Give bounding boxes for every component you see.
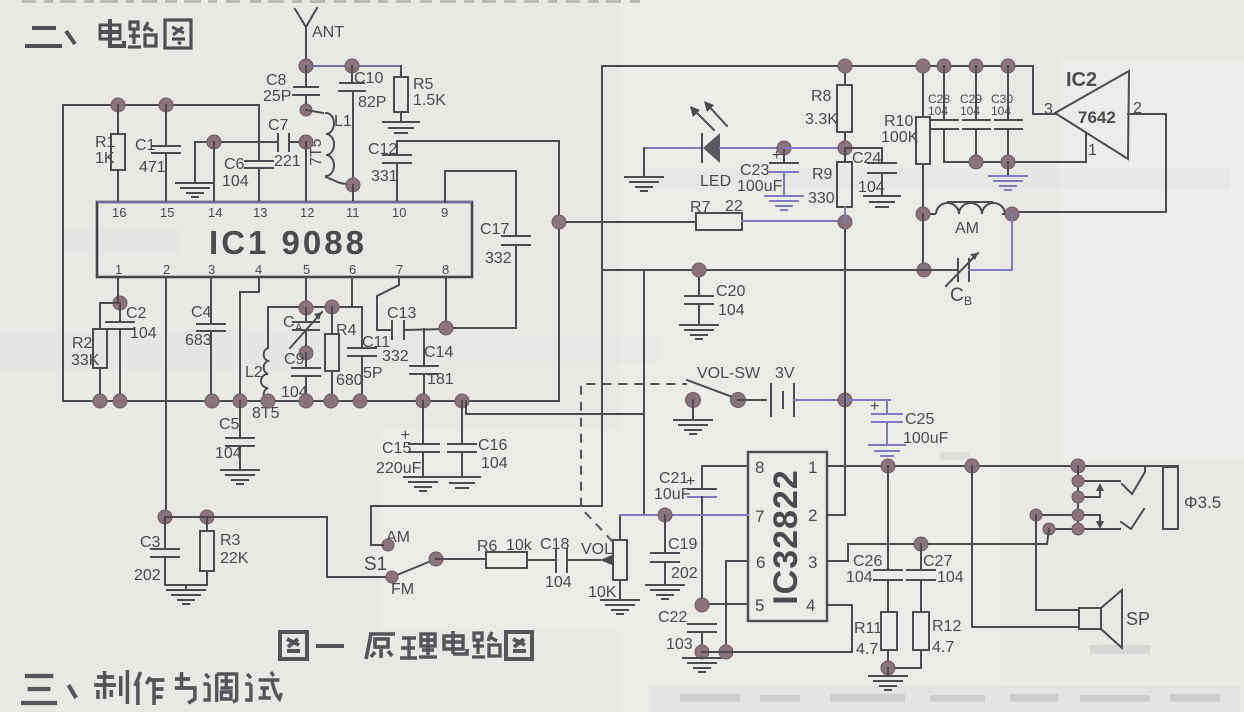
potentiometer VOL 10K: [567, 515, 639, 614]
wire pin5: [305, 277, 307, 308]
node jack row A: [1072, 475, 1084, 487]
node CB left junction: [917, 263, 931, 277]
node pin1 junction: [113, 296, 127, 310]
svg-text:C22: C22: [658, 609, 687, 626]
svg-text:7: 7: [396, 262, 403, 277]
svg-text:332: 332: [485, 250, 512, 267]
char 图: [506, 632, 532, 659]
node pin14 junction: [207, 135, 221, 149]
cut-off text row at very top: [22, 0, 640, 3]
svg-text:683: 683: [185, 332, 212, 349]
node R1 top: [111, 98, 125, 112]
wire ground row to pin4: [702, 605, 852, 652]
wire pin2 down to S1 row: [165, 277, 167, 517]
node jack row C: [1072, 509, 1084, 521]
svg-text:C: C: [283, 314, 295, 331]
svg-text:S1: S1: [364, 554, 387, 575]
svg-text:R8: R8: [811, 88, 832, 105]
capacitor C28 104: [928, 66, 958, 162]
inductor L1 7T5: [306, 110, 353, 185]
svg-text:10uF: 10uF: [654, 486, 691, 503]
svg-text:103: 103: [666, 636, 693, 653]
svg-text:R11: R11: [854, 620, 882, 637]
svg-text:1: 1: [808, 458, 817, 477]
wire x=602 to x=644 at y=270: [602, 269, 644, 271]
svg-text:100uF: 100uF: [737, 178, 783, 195]
svg-text:R5: R5: [413, 76, 434, 93]
IC32822 pin numbers: [755, 458, 817, 615]
node rail C14-C15: [416, 394, 430, 408]
char 、: [69, 685, 77, 698]
svg-text:R2: R2: [72, 335, 93, 352]
node top rail R10: [916, 59, 930, 73]
svg-text:R7: R7: [690, 199, 711, 216]
svg-text:104: 104: [991, 104, 1011, 118]
char 理: [400, 634, 437, 658]
wire R10 bottom to CB row: [922, 214, 924, 270]
wire pin8: [445, 277, 447, 328]
svg-text:202: 202: [134, 567, 161, 584]
svg-text:+: +: [772, 147, 781, 164]
capacitor C4: [185, 277, 225, 401]
node rail L2: [261, 394, 275, 408]
svg-text:220uF: 220uF: [376, 460, 422, 477]
svg-text:8: 8: [442, 262, 449, 277]
wire bypass bottom rail y=162: [944, 161, 1085, 163]
svg-text:C17: C17: [480, 221, 509, 238]
svg-text:104: 104: [937, 569, 964, 586]
svg-text:1K: 1K: [95, 150, 115, 167]
capacitor C5: [215, 401, 259, 484]
wire R9-battery-pin2 vertical: [844, 222, 846, 515]
wire pin4: [240, 277, 259, 401]
variable capacitor CB: [946, 214, 1012, 308]
node pin12 junction: [299, 135, 313, 149]
svg-text:9: 9: [441, 205, 448, 220]
svg-text:A: A: [295, 322, 303, 334]
svg-text:R4: R4: [336, 322, 357, 339]
char 试: [245, 672, 281, 700]
speaker SP: [972, 466, 1150, 648]
node rail R2: [93, 394, 107, 408]
char 路: [128, 22, 156, 47]
svg-text:R10: R10: [884, 113, 913, 130]
wire y=307 row pins5-6: [268, 306, 362, 308]
node AM coil left: [916, 207, 930, 221]
svg-text:C14: C14: [424, 344, 453, 361]
IC1 bottom pin numbers: [115, 262, 449, 277]
wire R7 to R9 node: [742, 220, 845, 222]
svg-text:4: 4: [806, 596, 815, 615]
svg-text:221: 221: [274, 153, 301, 170]
char 、: [66, 31, 75, 44]
wire x=644 down to pin7 row: [643, 414, 645, 515]
capacitor C17: [480, 221, 530, 328]
svg-text:C5: C5: [219, 416, 240, 433]
svg-text:C26: C26: [853, 553, 882, 570]
capacitor C22 103: [658, 609, 716, 657]
svg-text:1: 1: [1088, 142, 1097, 159]
capacitor C15 220uF: [376, 401, 442, 491]
svg-text:16: 16: [112, 205, 126, 220]
node C8-L1 junction: [300, 104, 312, 116]
wire pin11: [352, 185, 354, 202]
svg-text:13: 13: [253, 205, 267, 220]
capacitor C23 100uF: [737, 147, 803, 210]
node C26 top on pin1 row: [881, 459, 895, 473]
capacitor C19 202: [646, 515, 698, 599]
svg-text:IC1 9088: IC1 9088: [209, 224, 367, 261]
node pin5 junction: [299, 301, 313, 315]
svg-text:3: 3: [808, 553, 817, 572]
node rail C11: [353, 394, 367, 408]
svg-text:3.3K: 3.3K: [805, 111, 838, 128]
svg-text:100uF: 100uF: [903, 430, 949, 447]
node S1 AM contact: [382, 539, 394, 551]
node R7-R9 junction: [838, 215, 852, 229]
char 调: [203, 674, 236, 702]
capacitor C24 104: [845, 148, 900, 207]
capacitor C29 104: [960, 66, 990, 162]
capacitor C8: [263, 66, 319, 110]
svg-text:IC2: IC2: [1066, 69, 1097, 91]
wire y=270 row: [602, 269, 958, 271]
jack springs: [1121, 467, 1145, 529]
svg-text:7642: 7642: [1078, 108, 1116, 127]
svg-text:10: 10: [392, 205, 406, 220]
caption 图一 原理电路图: [280, 631, 532, 659]
capacitor C30 104: [991, 66, 1022, 162]
node rail C4: [205, 394, 219, 408]
node rail R4: [324, 394, 338, 408]
node S1 common: [429, 552, 443, 566]
char 图: [165, 20, 191, 48]
svg-text:Φ3.5: Φ3.5: [1184, 493, 1221, 512]
resistor R4 680: [325, 307, 363, 401]
ground at LED: [625, 148, 663, 191]
node jack row B: [1072, 491, 1084, 503]
wire AM contact to x=602: [371, 506, 602, 545]
mechanical dashed link VOL to VOL-SW: [581, 384, 687, 542]
capacitor C18 104: [540, 536, 572, 591]
svg-text:7: 7: [755, 507, 764, 526]
svg-text:L1: L1: [334, 113, 352, 130]
node rail C16: [455, 394, 469, 408]
wire pin6 to ground row: [726, 561, 748, 652]
resistor R9 330: [808, 148, 852, 222]
ground at R11: [869, 668, 907, 690]
capacitor C2: [106, 303, 157, 401]
node S1 feed: [158, 510, 172, 524]
svg-text:C23: C23: [740, 162, 769, 179]
wire S1 common to R6: [436, 558, 486, 560]
capacitor C25 100uF: [869, 398, 949, 456]
node jack feed C: [1030, 509, 1042, 521]
node R3 top: [200, 510, 214, 524]
wire ground link y=414 to x=644: [466, 270, 644, 414]
wire battery node to C25: [845, 399, 890, 401]
node LED-C23 junction: [777, 141, 791, 155]
capacitor C14 181: [410, 329, 454, 401]
svg-text:C3: C3: [140, 534, 161, 551]
capacitor C6: [222, 142, 273, 202]
svg-text:B: B: [964, 294, 972, 308]
svg-text:+: +: [870, 398, 879, 415]
wire left top rail y=105: [63, 105, 259, 142]
svg-text:104: 104: [222, 173, 249, 190]
antenna ANT: [295, 8, 317, 66]
svg-text:SP: SP: [1126, 609, 1150, 629]
capacitor C20 104: [680, 270, 745, 339]
svg-text:12: 12: [300, 205, 314, 220]
resistor R12 4.7: [888, 612, 961, 668]
svg-text:202: 202: [671, 565, 698, 582]
svg-text:C2: C2: [126, 305, 147, 322]
wire bottom rail y=401: [63, 400, 559, 402]
node jack row D: [1072, 523, 1084, 535]
switch S1: [364, 529, 436, 598]
svg-text:C21: C21: [659, 470, 688, 487]
svg-text:C15: C15: [382, 440, 411, 457]
svg-text:1.5K: 1.5K: [413, 92, 446, 109]
svg-text:5: 5: [755, 596, 764, 615]
wire pin14: [213, 142, 215, 202]
wire pin12 vertical: [305, 142, 307, 202]
svg-text:ANT: ANT: [312, 24, 344, 41]
inductor L2 8T5: [245, 307, 280, 422]
svg-text:15: 15: [160, 205, 174, 220]
capacitor C7: [268, 117, 306, 170]
wire left vertical x=63: [62, 105, 64, 401]
svg-text:R1: R1: [95, 134, 116, 151]
capacitor C3 202: [134, 517, 179, 585]
svg-text:5P: 5P: [363, 365, 383, 382]
node pin6 ground junction: [719, 645, 733, 659]
svg-text:33K: 33K: [71, 352, 100, 369]
svg-text:R6: R6: [477, 538, 498, 555]
wire pin6: [351, 277, 353, 307]
svg-text:104: 104: [718, 302, 745, 319]
svg-text:104: 104: [215, 445, 242, 462]
svg-text:3: 3: [208, 262, 215, 277]
char 电: [444, 631, 467, 654]
svg-text:VOL: VOL: [581, 541, 613, 558]
node AM coil right: [1005, 207, 1019, 221]
ground below C3-R3: [165, 585, 207, 604]
node S1 FM contact: [386, 571, 398, 583]
variable capacitor CA: [283, 308, 322, 353]
svg-text:C4: C4: [191, 304, 212, 321]
svg-text:VOL-SW: VOL-SW: [697, 365, 761, 382]
node CA bottom junction: [299, 346, 313, 360]
resistor R7 22: [690, 198, 743, 230]
svg-text:LED: LED: [700, 173, 731, 190]
node top rail R8: [838, 59, 852, 73]
wire pin7 row: [620, 514, 748, 516]
IC1 top pin numbers: [112, 205, 448, 220]
ground at VOL-SW: [674, 400, 712, 434]
wire pin1: [117, 277, 119, 303]
svg-text:C9: C9: [284, 351, 305, 368]
svg-text:104: 104: [928, 104, 948, 118]
capacitor C16 104: [444, 401, 508, 488]
svg-text:C13: C13: [387, 305, 416, 322]
svg-text:10k: 10k: [506, 537, 533, 554]
node battery-R9 junction: [838, 393, 852, 407]
svg-text:6: 6: [756, 553, 765, 572]
svg-text:104: 104: [960, 104, 980, 118]
svg-text:C19: C19: [668, 536, 697, 553]
op-amp IC2 7642: [1044, 69, 1142, 159]
wire y=222 from x=559 to R7: [559, 221, 696, 223]
wire C17 bottom to pin8 node: [446, 327, 516, 329]
jack switch arrows: [1096, 483, 1104, 529]
svg-text:82P: 82P: [358, 94, 386, 111]
svg-text:330: 330: [808, 190, 835, 207]
node C21-C22-pin5 junction: [695, 598, 709, 612]
svg-text:22K: 22K: [220, 550, 249, 567]
wire y=517 row: [165, 517, 385, 577]
node jack column top: [1071, 459, 1085, 473]
svg-text:R12: R12: [932, 618, 961, 635]
svg-text:AM: AM: [955, 220, 979, 237]
jack body: [1163, 467, 1178, 529]
wire pin3 row up to jack D: [1047, 529, 1049, 544]
resistor R3 22K: [200, 517, 249, 585]
wire R6 to C18: [527, 559, 556, 561]
IC1 9088: [97, 202, 472, 277]
heading 三、制作与调试: [21, 670, 281, 705]
svg-text:4: 4: [255, 262, 262, 277]
svg-text:FM: FM: [391, 581, 414, 598]
svg-text:2: 2: [808, 506, 817, 525]
wire IC2 pin2 output: [1012, 114, 1166, 212]
wire x=602 vertical: [601, 66, 603, 506]
svg-text:C7: C7: [268, 117, 289, 134]
wire pin3 to C27 row: [827, 544, 1047, 561]
char 二: [25, 28, 62, 46]
inductor AM antenna coil: [923, 202, 1012, 237]
svg-text:331: 331: [371, 168, 398, 185]
wire pin9 to C17: [445, 171, 516, 236]
node jack feed D: [1043, 523, 1055, 535]
char 三: [21, 676, 57, 703]
node C22 bottom junction: [695, 645, 709, 659]
svg-text:C16: C16: [478, 437, 507, 454]
faint bottom text fragments: [680, 452, 1220, 702]
svg-text:8: 8: [755, 458, 764, 477]
capacitor C27 104: [907, 544, 964, 612]
svg-text:11: 11: [346, 205, 360, 220]
node VOL-SW output: [731, 393, 746, 408]
char 制: [94, 670, 127, 704]
wire top rail corner to IC2 pin3: [1033, 66, 1055, 114]
node R11-R12 ground junction: [881, 661, 895, 675]
resistor R8 3.3K: [805, 66, 852, 148]
resistor R1: [95, 105, 125, 202]
svg-text:104: 104: [858, 179, 885, 196]
wire IC2 pin1 to bypass rail: [1085, 133, 1087, 162]
node R4 top junction: [325, 300, 339, 314]
svg-text:C10: C10: [354, 70, 383, 87]
svg-text:C: C: [950, 285, 964, 306]
node rail C9: [299, 394, 313, 408]
wire y=142 row: [195, 141, 278, 143]
node speaker return on pin1 row: [965, 459, 979, 473]
resistor R5: [394, 66, 446, 122]
wire LED row to R8-R9 node: [784, 147, 845, 149]
wire x=559 vertical: [558, 141, 560, 401]
node C19 top: [658, 508, 672, 522]
node VOL-SW ground contact: [686, 393, 701, 408]
svg-text:104: 104: [481, 455, 508, 472]
phone jack column wires: [1036, 466, 1120, 529]
node top rail C29: [969, 59, 983, 73]
svg-text:10K: 10K: [588, 584, 617, 601]
svg-text:C24: C24: [852, 150, 881, 167]
resistor R6 10k: [477, 537, 533, 568]
svg-text:680: 680: [336, 372, 363, 389]
svg-text:C12: C12: [368, 141, 397, 158]
svg-text:C1: C1: [135, 137, 156, 154]
amplifier IC32822: [748, 452, 827, 621]
svg-text:C6: C6: [224, 156, 245, 173]
ground stub left of pin14: [176, 142, 214, 197]
capacitor C13 332: [377, 305, 446, 365]
svg-text:IC32822: IC32822: [767, 469, 805, 605]
switch VOL-SW: [687, 365, 761, 398]
svg-text:C25: C25: [905, 411, 934, 428]
node bypass rail C30: [1001, 155, 1015, 169]
wire C12 top to x=559: [397, 140, 559, 142]
node rail pin4: [233, 394, 247, 408]
wire top rail y=66: [306, 65, 401, 67]
char 原: [366, 634, 395, 659]
node top rail C28: [937, 59, 951, 73]
node bypass rail C29: [969, 155, 983, 169]
svg-text:C8: C8: [266, 72, 287, 89]
resistor R2: [71, 303, 120, 401]
svg-text:181: 181: [427, 371, 454, 388]
capacitor C1: [135, 105, 180, 202]
node C20 top: [692, 263, 706, 277]
svg-text:1: 1: [115, 262, 122, 277]
svg-text:471: 471: [139, 159, 166, 176]
wire pin1 row y=466: [827, 465, 1178, 467]
node C1 top: [159, 98, 173, 112]
node L1-pin11 junction: [346, 178, 360, 192]
capacitor C12: [368, 141, 411, 202]
svg-text:6: 6: [349, 262, 356, 277]
wire pin5 stub: [702, 603, 748, 605]
wire pin7 jog: [377, 277, 399, 330]
char 图: [280, 632, 307, 659]
ground below R5: [383, 122, 419, 133]
svg-text:104: 104: [545, 574, 572, 591]
char 作: [135, 672, 164, 705]
svg-text:R3: R3: [220, 532, 241, 549]
node C10 junction: [345, 59, 359, 73]
node top rail C30: [1001, 59, 1015, 73]
svg-text:4.7: 4.7: [932, 639, 954, 656]
svg-text:25P: 25P: [263, 88, 291, 105]
heading strokes 二、电路图 drawn as paths: [25, 19, 191, 48]
char 与: [175, 672, 195, 703]
svg-text:C18: C18: [540, 536, 569, 553]
svg-text:104: 104: [130, 325, 157, 342]
svg-text:3V: 3V: [775, 365, 795, 382]
resistor R10 100K: [881, 66, 930, 214]
